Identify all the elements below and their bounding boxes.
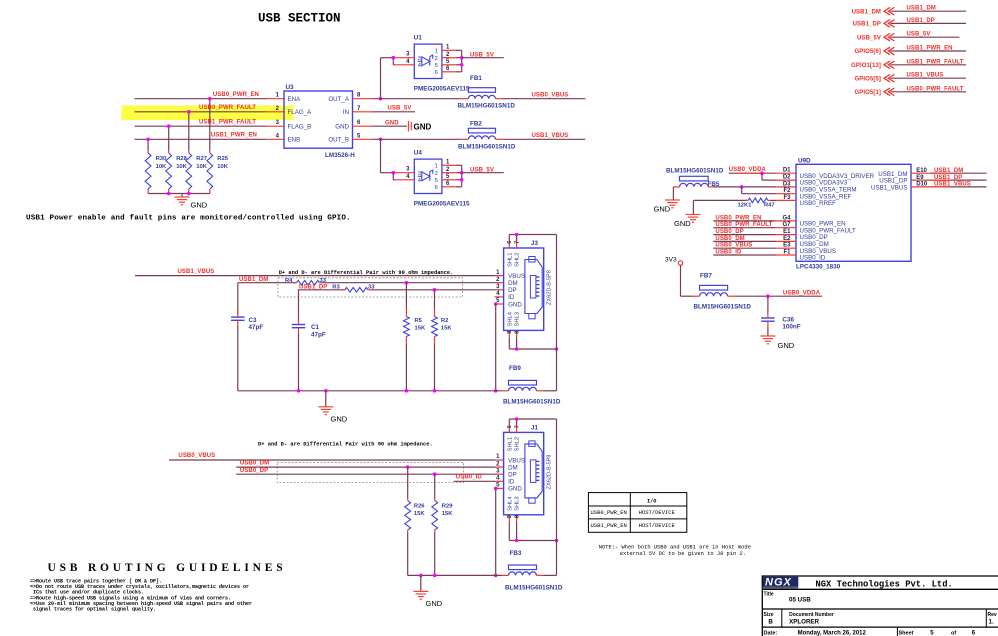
svg-text:LM3526-H: LM3526-H — [325, 152, 355, 159]
svg-text:R5: R5 — [415, 318, 423, 324]
svg-text:Document Number: Document Number — [789, 612, 834, 618]
svg-text:USB1_DP: USB1_DP — [853, 22, 881, 28]
svg-text:GND: GND — [654, 205, 671, 214]
wire USB_5V output of U4 — [462, 167, 504, 173]
svg-text:USB0_PWR_EN: USB0_PWR_EN — [715, 215, 761, 221]
wire OUT_B to FB2 — [353, 138, 469, 140]
capacitor C36 100nF — [761, 296, 801, 336]
wire USB_5V at U3 pin IN — [353, 106, 416, 112]
svg-text:GPIO5[6]: GPIO5[6] — [855, 49, 881, 55]
op-amp U3 LM3526-H body — [284, 84, 355, 159]
U4 right pins 1 2 5 6 bracket — [442, 160, 464, 188]
resistor R5 15K — [404, 283, 426, 391]
wire USB0_VBUS to J1 pin1 — [169, 453, 504, 460]
svg-text:PMEG2005AEV115: PMEG2005AEV115 — [414, 85, 470, 92]
port GPIO5[5] wire USB1_VBUS — [855, 73, 966, 83]
svg-text:R25: R25 — [217, 156, 228, 162]
wire from OUT_A junction up to U1 — [379, 58, 383, 101]
svg-text:1: 1 — [435, 164, 438, 170]
svg-text:15K: 15K — [441, 325, 452, 331]
svg-text:SHL1: SHL1 — [507, 252, 513, 267]
wire USB0_DP to U9D E1 — [713, 229, 775, 235]
ferrite bead FB5 BLM15HG601SN1D — [666, 167, 724, 188]
svg-text:FB2: FB2 — [470, 121, 482, 128]
svg-text:USB0_DP: USB0_DP — [715, 229, 743, 235]
resistor R27 10K — [186, 110, 208, 194]
resistor R26 15K — [405, 467, 426, 575]
svg-text:SHL3: SHL3 — [515, 312, 521, 327]
svg-text:USB0_PWR_FAULT: USB0_PWR_FAULT — [907, 86, 964, 92]
resistor R2 15K — [432, 290, 453, 391]
note differential pair USB1 — [279, 270, 454, 276]
svg-text:6: 6 — [435, 185, 438, 191]
svg-text:HOST/DEVICE: HOST/DEVICE — [639, 509, 676, 516]
svg-text:USB0_VDDA: USB0_VDDA — [783, 290, 821, 296]
svg-text:R3: R3 — [332, 285, 340, 291]
wire USB0_VBUS to U9D E3 — [713, 243, 775, 249]
power ground symbol at U3 GND pin — [409, 121, 432, 132]
svg-text:C1: C1 — [311, 324, 320, 331]
J1 pin5 GND stub and drop — [494, 487, 504, 578]
dashed box USB1 diff pair — [278, 278, 463, 297]
svg-text:8: 8 — [514, 515, 520, 518]
size and document number row — [764, 612, 997, 625]
svg-text:USB ROUTING GUIDELINES: USB ROUTING GUIDELINES — [48, 562, 287, 574]
svg-text:USB1_VBUS: USB1_VBUS — [907, 73, 944, 79]
resistor R3 33 — [332, 285, 375, 293]
svg-text:USB0_PWR_EN: USB0_PWR_EN — [591, 509, 627, 516]
J3 pin5 GND stub and drop — [494, 302, 504, 392]
svg-text:GND: GND — [335, 123, 349, 130]
svg-text:GND: GND — [778, 341, 795, 350]
svg-text:BLM15HG601SN1D: BLM15HG601SN1D — [503, 399, 561, 406]
svg-text:USB1_DM: USB1_DM — [907, 6, 936, 12]
svg-text:BLM15HG601SN1D: BLM15HG601SN1D — [666, 167, 724, 174]
svg-text:C36: C36 — [782, 316, 794, 323]
dashed box USB0 diff pair — [277, 462, 463, 482]
svg-text:HOST/DEVICE: HOST/DEVICE — [639, 522, 676, 529]
U9D left pin names and numbers — [776, 168, 875, 262]
diode U4 PMEG2005AEV115 — [414, 149, 470, 207]
wire USB1_DP with R3 — [298, 285, 345, 291]
svg-text:D10: D10 — [916, 182, 928, 188]
svg-text:47pF: 47pF — [311, 332, 326, 339]
J1 shield pin labels — [507, 437, 520, 511]
svg-text:R4: R4 — [285, 278, 293, 284]
J3 shield pins top 6 7 — [507, 241, 520, 249]
wire USB1_PWR_FAULT to U3 pin3 — [135, 120, 285, 127]
svg-text:USB_5V: USB_5V — [857, 35, 881, 41]
connector J3 ZX62D-B-5P8 body — [504, 240, 553, 330]
svg-text:USB1_DP: USB1_DP — [907, 18, 935, 24]
svg-text:R26: R26 — [414, 504, 425, 510]
diode U1 PMEG2005AEV115 — [414, 34, 470, 92]
J3 shield pins bottom 9 8 — [507, 330, 520, 338]
wire USB0_ID to U9D F1 — [713, 249, 775, 255]
svg-text:USB1_VBUS: USB1_VBUS — [532, 133, 569, 139]
svg-text:GND: GND — [674, 219, 691, 228]
svg-text:SHL4: SHL4 — [507, 496, 513, 511]
svg-text:OUT_A: OUT_A — [328, 96, 350, 103]
svg-text:USB1_DM: USB1_DM — [934, 168, 963, 174]
svg-text:GND: GND — [426, 599, 443, 608]
svg-text:FB1: FB1 — [470, 75, 482, 82]
svg-text:SHL2: SHL2 — [515, 437, 521, 452]
svg-text:SHL3: SHL3 — [515, 496, 521, 511]
svg-text:R30: R30 — [156, 156, 167, 162]
svg-text:12K1: 12K1 — [738, 203, 753, 209]
svg-text:2: 2 — [435, 171, 438, 177]
guidelines bullet text — [30, 579, 252, 613]
power node 3V3 — [665, 256, 693, 296]
svg-text:OUT_B: OUT_B — [328, 137, 349, 144]
wire USB0_PWR_EN to U9D G4 — [713, 215, 775, 221]
svg-text:USB SECTION: USB SECTION — [258, 12, 341, 26]
title row — [764, 591, 812, 603]
svg-text:U1: U1 — [414, 34, 423, 41]
J1 pin numbers 1-5 — [496, 454, 500, 488]
resistor R25 10K — [207, 97, 229, 194]
wire USB1_DP from U9D E9 — [911, 175, 987, 181]
svg-text:5: 5 — [435, 178, 438, 184]
svg-text:USB_5V: USB_5V — [470, 52, 494, 58]
svg-text:USB1_PWR_EN: USB1_PWR_EN — [907, 46, 953, 52]
port GPIO5[1] wire USB0_PWR_FAULT — [855, 86, 966, 96]
svg-text:USB0_PWR_FAULT: USB0_PWR_FAULT — [715, 222, 772, 228]
svg-text:GND: GND — [331, 415, 348, 424]
svg-text:10K: 10K — [156, 164, 167, 170]
svg-text:Date:: Date: — [764, 630, 778, 636]
svg-text:Size: Size — [764, 612, 774, 618]
svg-text:R2: R2 — [441, 318, 448, 324]
svg-text:BLM15HG601SN1D: BLM15HG601SN1D — [458, 103, 516, 110]
svg-text:USB0_VBUS: USB0_VBUS — [715, 243, 752, 249]
svg-text:I/O: I/O — [647, 499, 656, 505]
U3 pin numbers — [276, 93, 361, 140]
svg-text:2: 2 — [435, 56, 438, 62]
svg-text:6: 6 — [507, 425, 513, 428]
wire USB0_DM to U9D E2 — [713, 236, 775, 242]
wire USB0_PWR_EN to U3 pin1 — [135, 92, 285, 99]
svg-text:ZX62D-B-5P8: ZX62D-B-5P8 — [547, 270, 553, 305]
note differential pair USB0 — [258, 442, 433, 448]
svg-text:USB1_VBUS: USB1_VBUS — [934, 182, 971, 188]
wire USB0_VDDA net at FB7 — [735, 290, 823, 298]
U9D right pin names USB1_DM USB1_DP USB1_VBUS — [871, 171, 907, 192]
ferrite bead FB2 BLM15HG601SN1D — [458, 121, 516, 151]
svg-text:USB0_DM: USB0_DM — [715, 236, 744, 242]
svg-text:USB1_VBUS: USB1_VBUS — [178, 269, 215, 275]
ground USB0 section — [413, 575, 442, 608]
svg-text:Sheet: Sheet — [899, 630, 914, 636]
svg-text:Monday, March 26, 2012: Monday, March 26, 2012 — [798, 630, 867, 636]
wire OUT_A to FB1 — [353, 98, 469, 100]
J1 shield pins top 6 7 — [507, 425, 520, 433]
svg-text:7: 7 — [514, 425, 520, 428]
wire USB0 ground rail — [408, 574, 502, 578]
svg-text:USB1_PWR_EN: USB1_PWR_EN — [591, 522, 627, 529]
J3 pin numbers 1-5 — [496, 270, 500, 304]
svg-text:DP: DP — [508, 287, 517, 294]
capacitor C3 47pF — [231, 283, 263, 391]
svg-text:ID: ID — [508, 294, 515, 301]
svg-text:GND: GND — [508, 301, 522, 308]
svg-text:1.: 1. — [989, 618, 994, 625]
svg-text:BLM15HG601SN1D: BLM15HG601SN1D — [505, 585, 563, 592]
svg-text:USB0_ID: USB0_ID — [456, 475, 483, 481]
svg-text:IN: IN — [343, 109, 349, 116]
svg-text:Title: Title — [764, 591, 774, 597]
svg-text:GPIO5[1]: GPIO5[1] — [855, 90, 881, 96]
svg-text:6: 6 — [507, 241, 513, 244]
svg-text:U4: U4 — [414, 149, 423, 156]
svg-text:signal traces for optimal sign: signal traces for optimal signal quality… — [33, 607, 156, 613]
svg-text:U3: U3 — [286, 84, 295, 91]
svg-text:C3: C3 — [249, 317, 258, 324]
wire USB0_DP to J1 pin3 — [236, 468, 503, 476]
svg-text:USB0_VBUS: USB0_VBUS — [178, 453, 215, 459]
svg-text:15K: 15K — [415, 325, 426, 331]
svg-text:GND: GND — [414, 123, 432, 132]
svg-text:9: 9 — [507, 515, 513, 518]
wire R3 to J3 pin3 — [371, 288, 504, 292]
svg-text:B: B — [768, 618, 773, 625]
svg-text:3V3: 3V3 — [665, 256, 677, 263]
svg-text:47pF: 47pF — [249, 324, 264, 331]
svg-text:XPLORER: XPLORER — [789, 618, 819, 625]
svg-text:R29: R29 — [442, 504, 453, 510]
svg-text:USB1_PWR_FAULT: USB1_PWR_FAULT — [907, 59, 964, 65]
wire USB1_DM with R4 — [238, 277, 297, 283]
J3 bottom shield wire — [509, 338, 558, 351]
svg-text:5: 5 — [435, 63, 438, 69]
svg-text:external 5V DC to be given to: external 5V DC to be given to J8 pin 2. — [620, 551, 746, 557]
port USB1_DP wire USB1_DP — [853, 18, 966, 28]
resistor R4 33 — [285, 278, 327, 285]
svg-text:FLAG_A: FLAG_A — [288, 109, 313, 116]
ground at FB5 — [654, 187, 681, 214]
svg-text:05 USB: 05 USB — [789, 596, 811, 603]
wire USB_5V output of U1 — [462, 52, 504, 58]
svg-text:ENB: ENB — [288, 137, 301, 144]
company name text — [816, 579, 953, 589]
wire USB0_PWR_FAULT to U3 pin2 — [135, 105, 285, 112]
ground at R47 — [674, 200, 701, 227]
svg-text:ENA: ENA — [288, 96, 302, 103]
svg-text:10K: 10K — [217, 164, 228, 170]
wire USB0_VDDA to U9D D1 D2 — [729, 167, 776, 180]
svg-text:USB0_DP: USB0_DP — [240, 468, 268, 474]
J1 bottom shield wire — [509, 522, 558, 542]
svg-text:USB0_RREF: USB0_RREF — [800, 200, 837, 207]
svg-text:USB1_VBUS: USB1_VBUS — [871, 185, 907, 192]
svg-text:R47: R47 — [764, 203, 775, 209]
J1 shield pins bottom 9 8 — [507, 515, 520, 523]
svg-text:1: 1 — [435, 49, 438, 55]
logo NGX — [763, 576, 799, 588]
svg-text:PMEG2005AEV115: PMEG2005AEV115 — [414, 200, 470, 207]
J3 top shield wire — [509, 233, 556, 241]
svg-text:USB1_DM: USB1_DM — [852, 9, 881, 15]
svg-text:USB0_ID: USB0_ID — [715, 249, 742, 255]
wire USB0_PWR_FAULT to U9D G7 — [713, 222, 775, 228]
ground U3 resistors — [175, 194, 208, 210]
wire ground rail under resistors — [148, 192, 210, 196]
svg-text:9: 9 — [507, 331, 513, 334]
J3 mini-USB drawing — [525, 257, 542, 319]
svg-text:10K: 10K — [176, 164, 187, 170]
svg-text:USB0_ID: USB0_ID — [800, 255, 826, 262]
svg-text:J1: J1 — [531, 424, 539, 431]
svg-text:NGX Technologies Pvt. Ltd.: NGX Technologies Pvt. Ltd. — [816, 579, 953, 589]
svg-text:BLM15HG601SN1D: BLM15HG601SN1D — [694, 304, 752, 311]
svg-text:J3: J3 — [531, 240, 539, 247]
svg-text:R27: R27 — [196, 156, 207, 162]
wire USB1_DM from U9D E10 — [911, 168, 987, 174]
svg-text:8: 8 — [514, 331, 520, 334]
ferrite bead FB7 BLM15HG601SN1D — [693, 273, 751, 311]
svg-text:U9D: U9D — [798, 157, 811, 164]
svg-text:15K: 15K — [442, 511, 453, 517]
svg-text:SHL1: SHL1 — [507, 437, 513, 452]
U4 left pins 3 4 — [381, 167, 415, 180]
svg-text:GND: GND — [191, 201, 208, 210]
wire shield rail right of J1 — [556, 419, 558, 575]
svg-text:E10: E10 — [916, 168, 927, 174]
svg-text:USB1 Power enable and fault pi: USB1 Power enable and fault pins are mon… — [26, 215, 351, 223]
port GPIO5[6] wire USB1_PWR_EN — [855, 46, 966, 56]
resistor R28 10K — [166, 124, 188, 193]
ferrite bead FB3 BLM15HG601SN1D — [502, 550, 563, 592]
resistor R47 12K1 — [693, 198, 775, 208]
svg-text:DP: DP — [508, 472, 517, 479]
svg-text:D+ and D- are Differential Pai: D+ and D- are Differential Pair with 90 … — [258, 442, 433, 448]
svg-text:DM: DM — [508, 464, 518, 471]
svg-text:15K: 15K — [414, 511, 425, 517]
svg-text:GPIO1[13]: GPIO1[13] — [851, 63, 881, 69]
J3 pin names — [508, 273, 525, 308]
svg-text:VBUS: VBUS — [508, 457, 525, 464]
svg-text:NOTE:- When both USB0 and USB1: NOTE:- When both USB0 and USB1 are in Ho… — [599, 545, 751, 551]
port USB_5V wire USB_5V — [857, 32, 959, 42]
svg-text:3: 3 — [418, 171, 421, 177]
note host mode text — [599, 545, 751, 558]
svg-text:USB1_PWR_FAULT: USB1_PWR_FAULT — [199, 120, 256, 126]
J1 top shield wire — [509, 417, 556, 425]
svg-text:GPIO5[5]: GPIO5[5] — [855, 76, 881, 82]
svg-text:6: 6 — [435, 70, 438, 76]
svg-text:USB0_PWR_FAULT: USB0_PWR_FAULT — [199, 105, 256, 111]
U1 right pins 1 2 5 6 bracket — [442, 45, 464, 72]
svg-text:FB9: FB9 — [509, 365, 521, 372]
J1 pin names — [508, 457, 525, 492]
svg-text:GND: GND — [385, 121, 399, 127]
svg-text:USB0_PWR_EN: USB0_PWR_EN — [213, 92, 259, 98]
port USB1_DM wire USB1_DM — [852, 6, 966, 16]
svg-text:of: of — [951, 630, 956, 636]
connector J1 ZX62D-B-5P8 body — [504, 424, 553, 514]
svg-text:FB7: FB7 — [700, 273, 712, 280]
svg-text:USB1_PWR_EN: USB1_PWR_EN — [211, 133, 257, 139]
J3 pin4 ID stub — [495, 296, 504, 298]
port GPIO1[13] wire USB1_PWR_FAULT — [851, 59, 966, 69]
svg-text:USB_5V: USB_5V — [388, 106, 412, 112]
ferrite bead FB1 BLM15HG601SN1D — [458, 75, 516, 110]
IC U9D LPC4330_1830 body — [796, 157, 911, 270]
wire R4 to J3 pin2 — [323, 281, 504, 285]
svg-text:USB_5V: USB_5V — [907, 32, 931, 38]
wire USB1_VBUS net — [496, 133, 586, 139]
svg-text:VBUS: VBUS — [508, 273, 525, 280]
svg-text:USB0_DM: USB0_DM — [240, 461, 269, 467]
svg-text:3: 3 — [418, 56, 421, 62]
wire shield rail right of J3 — [556, 235, 558, 391]
table USB host device — [588, 493, 686, 533]
wire FB5 to U9D D3 and F2 — [713, 185, 776, 194]
svg-text:USB1_DP: USB1_DP — [934, 175, 962, 181]
svg-text:ZX62D-B-5P8: ZX62D-B-5P8 — [547, 455, 553, 490]
svg-text:DM: DM — [508, 280, 518, 287]
title block frame — [762, 576, 998, 636]
svg-text:GND: GND — [508, 486, 522, 493]
svg-text:10K: 10K — [196, 164, 207, 170]
svg-text:LPC4330_1830: LPC4330_1830 — [796, 263, 841, 270]
resistor R30 10K — [145, 138, 167, 194]
wire GND at U3 pin GND — [353, 121, 408, 127]
date and sheet row — [764, 630, 976, 636]
svg-text:100nF: 100nF — [782, 324, 800, 331]
wire USB1 ground rail — [238, 389, 502, 393]
svg-text:ID: ID — [508, 479, 515, 486]
capacitor C1 47pF — [292, 290, 326, 391]
U1 left pins 3 4 — [381, 52, 415, 65]
ferrite bead FB9 BLM15HG601SN1D — [502, 365, 561, 406]
ground USB1 section — [318, 391, 347, 424]
wire USB1_PWR_EN to U3 pin4 — [135, 133, 285, 140]
wire USB0_ID to J1 pin4 — [454, 475, 504, 482]
svg-text:SHL2: SHL2 — [515, 252, 521, 267]
ground at C36 — [760, 336, 794, 350]
highlight yellow band — [122, 106, 294, 121]
heading USB ROUTING GUIDELINES — [48, 562, 287, 574]
svg-text:USB_5V: USB_5V — [470, 167, 494, 173]
wire from OUT_B junction up to U4 — [379, 138, 383, 173]
svg-text:Rev: Rev — [988, 612, 997, 618]
wire USB1_VBUS from U9D D10 — [911, 182, 987, 188]
svg-text:SHL4: SHL4 — [507, 311, 513, 326]
U3 pin names — [288, 96, 350, 144]
svg-text:FLAG_B: FLAG_B — [288, 123, 312, 130]
wire USB0_DM to J1 pin2 — [236, 461, 503, 469]
svg-text:FB3: FB3 — [510, 550, 522, 557]
title USB SECTION — [258, 12, 341, 26]
J1 mini-USB drawing — [525, 441, 542, 503]
svg-text:E9: E9 — [916, 175, 924, 181]
svg-text:BLM15HG601SN1D: BLM15HG601SN1D — [458, 144, 516, 151]
resistor R29 15K — [432, 474, 453, 575]
svg-text:USB0_VBUS: USB0_VBUS — [532, 92, 569, 98]
svg-text:7: 7 — [514, 241, 520, 244]
J3 shield pin labels — [507, 252, 520, 326]
note USB1 power enable text — [26, 215, 351, 223]
wire USB0_VBUS net — [496, 92, 586, 98]
wire USB1_VBUS to J3 pin1 — [135, 269, 504, 276]
